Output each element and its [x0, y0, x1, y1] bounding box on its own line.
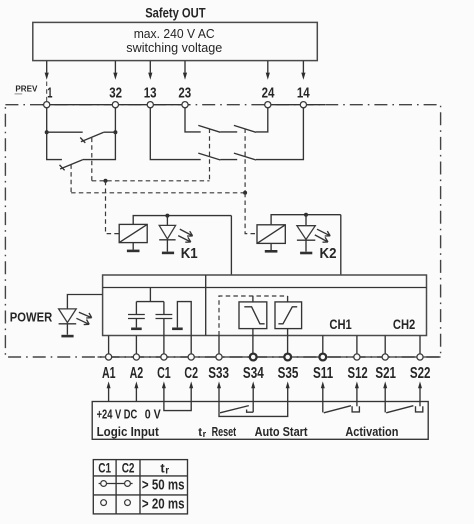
svg-text:S34: S34: [243, 365, 264, 382]
terminal S33: [216, 354, 222, 360]
table row line 1: [93, 475, 187, 477]
K1 LED arrow 2: [178, 236, 191, 243]
input arrow A2: [134, 381, 138, 401]
wire S22 riser: [419, 336, 421, 354]
linkage K1 NC dashed: [91, 138, 93, 181]
wire K1 drop to logic box: [230, 216, 232, 275]
svg-text:S35: S35: [278, 365, 299, 382]
svg-text:K2: K2: [320, 246, 337, 262]
Safety OUT box: [33, 22, 318, 60]
linkage K2 NO dashed column: [244, 129, 246, 193]
reset contact S33 side: [218, 402, 220, 413]
activation socket S12: [352, 406, 359, 412]
reset S34 stub: [252, 402, 254, 413]
wire NC row1 right: [104, 131, 116, 133]
capacitor C-b: [156, 302, 173, 354]
input arrow S12: [355, 381, 359, 401]
svg-text:23: 23: [178, 85, 191, 102]
solid border segment across bottom terminals: [98, 356, 441, 358]
LED K2: [297, 215, 315, 252]
svg-text:POWER: POWER: [10, 309, 53, 324]
wire S21 riser: [384, 336, 386, 354]
table row2 contact circle C1: [101, 500, 107, 506]
svg-text:> 20 ms: > 20 ms: [142, 496, 185, 512]
dashed S33 monitoring link: [219, 296, 288, 336]
K1 coil chassis bar: [127, 250, 140, 253]
wire row2 mid: [220, 159, 237, 161]
input arrow C1: [162, 381, 166, 401]
POWER LED chassis bar: [61, 335, 73, 338]
wire S35 riser: [287, 329, 289, 354]
svg-text:1: 1: [47, 85, 52, 102]
pulse icon falling edge: [239, 302, 267, 329]
terminal S35: [284, 354, 291, 361]
svg-text:S21: S21: [375, 365, 396, 382]
svg-text:Activation: Activation: [345, 424, 398, 439]
terminal A1: [106, 354, 112, 360]
svg-text:+24 V DC: +24 V DC: [97, 406, 138, 421]
input arrow A1: [107, 381, 111, 401]
main logic box: [103, 275, 427, 336]
svg-text:CH2: CH2: [393, 316, 416, 332]
svg-text:C2: C2: [122, 460, 135, 476]
input arrow S33: [217, 381, 221, 401]
svg-text:switching voltage: switching voltage: [126, 41, 222, 55]
wire S12 riser: [356, 336, 358, 354]
table row line 2: [93, 494, 187, 496]
wire A1 riser: [108, 336, 110, 354]
table column line 2: [139, 460, 141, 514]
wire terminal 1 down: [46, 108, 48, 132]
terminal 24: [265, 102, 271, 108]
LED POWER: [59, 309, 77, 335]
contact K1 NO row2 lever: [198, 153, 220, 160]
reset contact fixed socket: [247, 410, 254, 413]
K1 LED arrow 1: [180, 229, 193, 236]
K2 LED arrow 2: [315, 235, 328, 242]
svg-text:S12: S12: [348, 365, 368, 382]
node junction 32: [113, 130, 117, 134]
node K1 wire: [165, 214, 169, 218]
solid border segment across top terminals: [42, 104, 190, 106]
arrow to terminal 13: [148, 61, 152, 80]
svg-text:13: 13: [144, 85, 157, 102]
POWER LED arrow 2: [76, 318, 89, 324]
input arrow S11: [321, 381, 325, 401]
svg-text:0 V: 0 V: [145, 406, 161, 421]
activation lever 2: [386, 406, 413, 413]
reset contact lever: [220, 406, 249, 413]
svg-text:Safety OUT: Safety OUT: [145, 5, 206, 21]
arrow to terminal 24: [266, 61, 270, 80]
C-a chassis bar: [131, 327, 142, 330]
terminal C1: [161, 354, 167, 360]
contact K1 NO row1 lever: [198, 125, 220, 132]
wire NC row1 left: [47, 131, 83, 133]
solid border segment 24 to 14: [264, 104, 325, 106]
input arrow S35: [286, 381, 290, 401]
contact K1 NC tick: [80, 138, 85, 143]
activation contact S11 side: [322, 402, 324, 413]
table row1 jumper line: [99, 483, 133, 485]
svg-text:S22: S22: [410, 365, 431, 382]
wire NC row2 right: [83, 132, 116, 159]
terminal 23: [182, 102, 188, 108]
terminal S22: [417, 354, 423, 360]
svg-text:r: r: [203, 429, 207, 439]
relay coil K2: [257, 225, 285, 244]
svg-text:S11: S11: [313, 365, 333, 382]
filter stub from header: [149, 288, 151, 302]
input arrow S34: [251, 381, 255, 401]
input arrow S22: [418, 381, 422, 401]
function label box: [92, 402, 428, 440]
svg-text:CH1: CH1: [329, 316, 352, 332]
terminal S12: [354, 354, 360, 360]
svg-text:A2: A2: [130, 365, 144, 382]
arrow to terminal 32: [113, 61, 117, 80]
auto start bracket S33 to S35: [219, 402, 288, 417]
terminal S21: [382, 354, 388, 360]
arrow to terminal 23: [183, 61, 187, 80]
C1-C2 jumper bracket: [164, 402, 191, 411]
K2 coil chassis stub: [270, 243, 272, 250]
node junction 1: [45, 130, 49, 134]
contact K2 NO row2 lever: [234, 153, 256, 160]
svg-text:C2: C2: [184, 365, 198, 382]
wire terminal 32 down: [114, 108, 116, 132]
linkage drop to K1 coil dashed: [106, 181, 120, 234]
terminal A2: [133, 354, 139, 360]
terminal 14: [300, 102, 306, 108]
contact K2 NC tick: [60, 165, 65, 170]
svg-text:A1: A1: [102, 365, 116, 382]
wire POWER LED feed: [67, 295, 102, 309]
C2 chassis link: [177, 302, 191, 354]
wire S11 riser: [322, 336, 324, 354]
stub to pulse icon 1: [252, 296, 254, 302]
svg-text:r: r: [165, 465, 169, 476]
K2 LED chassis bar: [300, 252, 312, 255]
table row1 contact circle C1: [101, 481, 107, 487]
linkage K2 NC dashed: [70, 164, 72, 192]
table row2 contact circle C2: [125, 500, 131, 506]
arrow to terminal 14: [301, 61, 305, 80]
wire K2 drop to logic box: [340, 215, 342, 275]
K2 LED arrow 1: [317, 229, 330, 236]
K1 coil chassis stub: [132, 243, 134, 250]
LED K1: [159, 216, 175, 252]
contact K2 NC lever: [60, 160, 83, 169]
contact K2 NO row1 lever: [234, 125, 256, 132]
svg-text:Auto Start: Auto Start: [255, 424, 309, 439]
svg-text:Logic Input: Logic Input: [97, 424, 160, 439]
linkage line A dashed: [92, 180, 210, 182]
terminal S34: [250, 354, 257, 361]
svg-text:max. 240 V AC: max. 240 V AC: [134, 27, 215, 41]
node on line B: [243, 191, 247, 195]
svg-text:S33: S33: [208, 365, 229, 382]
svg-text:> 50 ms: > 50 ms: [142, 477, 185, 493]
input arrow C2: [189, 381, 193, 401]
arrow to terminal 1: [45, 61, 49, 101]
stub to pulse icon 2: [287, 296, 289, 302]
svg-text:C1: C1: [157, 365, 171, 382]
enclosure dash-dot border: [5, 105, 440, 357]
svg-text:24: 24: [262, 85, 275, 102]
wire row1 mid: [220, 131, 237, 133]
svg-text:Reset: Reset: [212, 424, 237, 439]
logic box divider: [205, 275, 207, 336]
logic box header line: [103, 287, 427, 289]
wire K2 coil top: [271, 215, 341, 225]
node K2 wire: [304, 213, 308, 217]
terminal S11: [319, 354, 326, 361]
wire terminal 13 down: [150, 108, 200, 160]
svg-text:32: 32: [109, 85, 122, 102]
wire S34 riser: [252, 329, 254, 354]
capacitor C-a: [128, 302, 145, 328]
activation lever 1: [324, 406, 351, 413]
activation S12 stub: [356, 402, 358, 407]
wire NC row2 left drop: [47, 132, 62, 159]
terminal 1: [44, 102, 50, 108]
activation socket S22: [416, 406, 423, 412]
wire terminal 23 down: [185, 108, 201, 132]
terminal 32: [112, 102, 118, 108]
terminal C2: [188, 354, 194, 360]
wire A2 riser: [135, 336, 137, 354]
linkage drop to K2 coil dashed: [245, 193, 257, 234]
PREV underline: [15, 93, 23, 95]
wire row1 to terminal 24: [256, 108, 268, 132]
relay coil K1: [119, 224, 147, 242]
svg-text:14: 14: [297, 85, 310, 102]
table column line 1: [115, 460, 117, 514]
linkage K1 NO dashed column: [209, 129, 211, 181]
contact K1 NC lever: [81, 132, 104, 141]
K2 coil chassis bar: [265, 250, 278, 253]
activation S22 stub: [419, 402, 421, 407]
C2 link chassis bar: [172, 327, 183, 330]
K1 LED chassis bar: [162, 252, 174, 255]
pulse icon rising edge: [275, 302, 302, 329]
POWER LED arrow 1: [79, 312, 92, 318]
activation contact S21 side: [384, 402, 386, 413]
wire S33 riser: [218, 336, 220, 354]
wire row2 to terminal 14: [256, 108, 303, 160]
svg-text:PREV: PREV: [15, 84, 37, 94]
linkage line B dashed: [71, 192, 245, 194]
table row1 contact circle C2: [125, 481, 131, 487]
svg-text:K1: K1: [181, 246, 198, 262]
svg-text:C1: C1: [98, 460, 111, 476]
timing table frame: [93, 460, 187, 514]
terminal 13: [147, 102, 153, 108]
wire K1 coil top: [133, 216, 231, 225]
input arrow S21: [383, 381, 387, 401]
node on line A: [104, 179, 108, 183]
wire capacitor rail: [136, 301, 164, 303]
